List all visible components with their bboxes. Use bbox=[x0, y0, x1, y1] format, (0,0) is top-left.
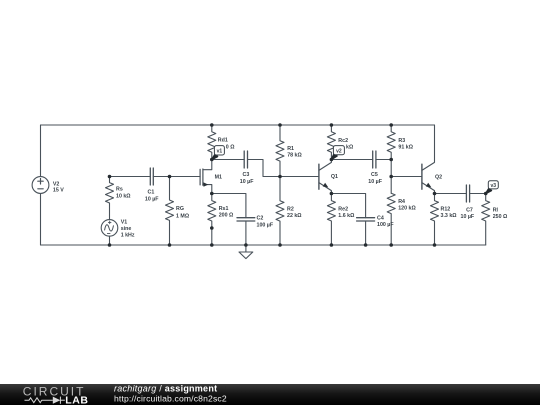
svg-text:250 Ω: 250 Ω bbox=[493, 214, 508, 220]
wire C2 to bottom rail bbox=[245, 221, 247, 245]
svg-text:v1: v1 bbox=[217, 149, 223, 155]
wire R3 node to R4 bbox=[390, 160, 392, 194]
node rail / C4 bbox=[364, 243, 368, 247]
node rail / R12 bbox=[433, 243, 437, 247]
wire C1 to M1 gate bbox=[153, 176, 200, 178]
node top rail / Rd1 bbox=[210, 123, 214, 127]
svg-text:sine: sine bbox=[121, 226, 132, 232]
svg-text:Rs1: Rs1 bbox=[219, 206, 229, 212]
svg-text:R4: R4 bbox=[398, 199, 405, 205]
resistor Rl (load) bbox=[482, 194, 490, 246]
svg-text:3.3 kΩ: 3.3 kΩ bbox=[441, 213, 458, 219]
wire C5 to R3/R4 node bbox=[376, 159, 391, 161]
voltage source V2 bbox=[32, 177, 49, 194]
wire R3/R4 node to Q2 base bbox=[391, 176, 422, 178]
node C5 / R3-R4 bbox=[389, 158, 393, 162]
svg-text:Q2: Q2 bbox=[435, 175, 442, 181]
svg-text:120 kΩ: 120 kΩ bbox=[398, 205, 416, 211]
svg-text:10 µF: 10 µF bbox=[461, 214, 475, 220]
node Q2 emitter bbox=[433, 192, 437, 196]
node rail / ground bbox=[244, 243, 248, 247]
svg-text:0 Ω: 0 Ω bbox=[226, 145, 235, 151]
transistor Q2 (NPN) bbox=[422, 125, 435, 194]
node R1/R2/Q1 base bbox=[278, 175, 282, 179]
node v3 (output) bbox=[484, 192, 488, 196]
wire bottom rail bbox=[41, 244, 486, 246]
node M1 source bbox=[210, 192, 214, 196]
svg-text:Rd1: Rd1 bbox=[218, 138, 228, 144]
svg-text:91 kΩ: 91 kΩ bbox=[398, 145, 413, 151]
node rail / Rs1 bbox=[210, 243, 214, 247]
node Rs1 bottom terminal bbox=[210, 226, 214, 230]
svg-text:LAB: LAB bbox=[65, 395, 88, 405]
svg-text:R1: R1 bbox=[287, 146, 294, 152]
wire left rail bottom (V2 to bottom rail) bbox=[40, 194, 42, 246]
svg-text:10 µF: 10 µF bbox=[145, 196, 159, 202]
svg-text:http://circuitlab.com/c8n2sc2: http://circuitlab.com/c8n2sc2 bbox=[114, 394, 227, 404]
svg-text:Rc2: Rc2 bbox=[338, 138, 348, 144]
component labels bbox=[53, 138, 508, 239]
node flag v2 bbox=[331, 146, 344, 160]
node rail / V1 bbox=[108, 243, 112, 247]
capacitor C3 bbox=[244, 151, 247, 168]
wire Q1 collector node to C5 bbox=[331, 159, 372, 161]
wire input node to C1 bbox=[110, 176, 151, 178]
svg-text:200 Ω: 200 Ω bbox=[219, 212, 234, 218]
svg-text:v2: v2 bbox=[336, 149, 342, 155]
wire C3 to R1/R2 node and Q1 base bbox=[248, 160, 319, 177]
svg-text:C5: C5 bbox=[371, 172, 378, 178]
resistor R4 bbox=[387, 193, 395, 245]
svg-text:22 kΩ: 22 kΩ bbox=[287, 213, 302, 219]
resistor R1 bbox=[276, 125, 284, 177]
wire left rail top (V2 to top rail) bbox=[40, 125, 42, 177]
node Q1 emitter bbox=[330, 192, 334, 196]
wire Q2 emitter node to C7 bbox=[435, 193, 467, 195]
svg-text:C2: C2 bbox=[257, 216, 264, 222]
svg-text:V1: V1 bbox=[121, 220, 128, 226]
svg-text:R3: R3 bbox=[398, 138, 405, 144]
node flag v1 bbox=[212, 146, 225, 160]
capacitor C4 bbox=[357, 218, 375, 221]
svg-text:78 kΩ: 78 kΩ bbox=[287, 152, 302, 158]
svg-text:M1: M1 bbox=[215, 175, 222, 181]
svg-text:1 MΩ: 1 MΩ bbox=[176, 213, 190, 219]
resistor RG bbox=[166, 177, 174, 246]
ground bbox=[239, 245, 253, 259]
junction dots bbox=[108, 123, 488, 247]
named node flags bbox=[212, 146, 499, 194]
node flag v3 bbox=[486, 181, 499, 194]
node rail / R2 bbox=[278, 243, 282, 247]
svg-text:RG: RG bbox=[176, 206, 184, 212]
svg-text:100 µF: 100 µF bbox=[257, 222, 274, 228]
node top rail / R3 bbox=[389, 123, 393, 127]
node R3-R4 / Q2 base bbox=[389, 175, 393, 179]
svg-text:kΩ: kΩ bbox=[346, 145, 354, 151]
resistor Rs bbox=[106, 177, 114, 204]
svg-text:rachitgarg / assignment: rachitgarg / assignment bbox=[114, 383, 217, 393]
wire Q1 emitter node to C4 bbox=[331, 194, 365, 218]
svg-text:1.6 kΩ: 1.6 kΩ bbox=[338, 213, 355, 219]
svg-text:Re2: Re2 bbox=[338, 207, 348, 213]
transistor M1 (NMOS) bbox=[200, 161, 212, 194]
wire top rail bbox=[41, 124, 435, 126]
node v2 (Q1 collector) bbox=[330, 158, 334, 162]
svg-text:Q1: Q1 bbox=[331, 174, 338, 180]
capacitor C2 bbox=[237, 218, 255, 221]
node input / RG bbox=[168, 175, 172, 179]
svg-text:R2: R2 bbox=[287, 207, 294, 213]
svg-text:R12: R12 bbox=[441, 207, 451, 213]
wire V1 to bottom rail bbox=[109, 236, 111, 245]
resistor Rs1 bbox=[208, 194, 216, 246]
svg-text:10 µF: 10 µF bbox=[368, 179, 382, 185]
node input / Rs bbox=[108, 175, 112, 179]
node rail / RG bbox=[168, 243, 172, 247]
resistor R3 bbox=[387, 125, 395, 160]
svg-text:15 V: 15 V bbox=[53, 187, 64, 193]
capacitor C1 bbox=[150, 168, 153, 185]
node v1 (M1 drain) bbox=[210, 158, 214, 162]
svg-text:Rl: Rl bbox=[493, 208, 499, 214]
svg-text:100 µF: 100 µF bbox=[377, 222, 394, 228]
svg-text:10 µF: 10 µF bbox=[240, 179, 254, 185]
resistor Rd1 bbox=[208, 125, 216, 160]
wire M1 drain node to C3 bbox=[212, 159, 244, 161]
svg-text:1 kHz: 1 kHz bbox=[121, 232, 135, 238]
svg-text:Rs: Rs bbox=[116, 187, 123, 193]
node rail / R4 bbox=[389, 243, 393, 247]
CircuitLab logo resistor-diode glyph bbox=[25, 397, 65, 404]
resistor Rc2 bbox=[327, 125, 335, 160]
svg-text:v3: v3 bbox=[491, 183, 497, 189]
footer bar bbox=[0, 383, 540, 405]
voltage source V1 (sine) bbox=[101, 220, 118, 237]
resistor Re2 bbox=[327, 194, 335, 246]
wire C4 to bottom rail bbox=[365, 221, 367, 245]
resistor R2 bbox=[276, 177, 284, 246]
capacitor C5 bbox=[373, 151, 376, 168]
node rail / Re2 bbox=[330, 243, 334, 247]
svg-text:C3: C3 bbox=[243, 172, 250, 178]
svg-text:C4: C4 bbox=[377, 216, 384, 222]
capacitor C7 bbox=[466, 185, 469, 202]
node top rail / Rc2 bbox=[330, 123, 334, 127]
wire C7 to output node bbox=[470, 193, 486, 195]
wire Rs to V1 bbox=[109, 203, 111, 220]
node top rail / R1 bbox=[278, 123, 282, 127]
svg-text:10 kΩ: 10 kΩ bbox=[116, 193, 131, 199]
transistor Q1 (NPN) bbox=[319, 160, 332, 194]
svg-text:C7: C7 bbox=[466, 208, 473, 214]
resistor R12 bbox=[431, 194, 439, 246]
wire M1 source node to C2 bbox=[212, 194, 246, 218]
svg-text:C1: C1 bbox=[148, 190, 155, 196]
